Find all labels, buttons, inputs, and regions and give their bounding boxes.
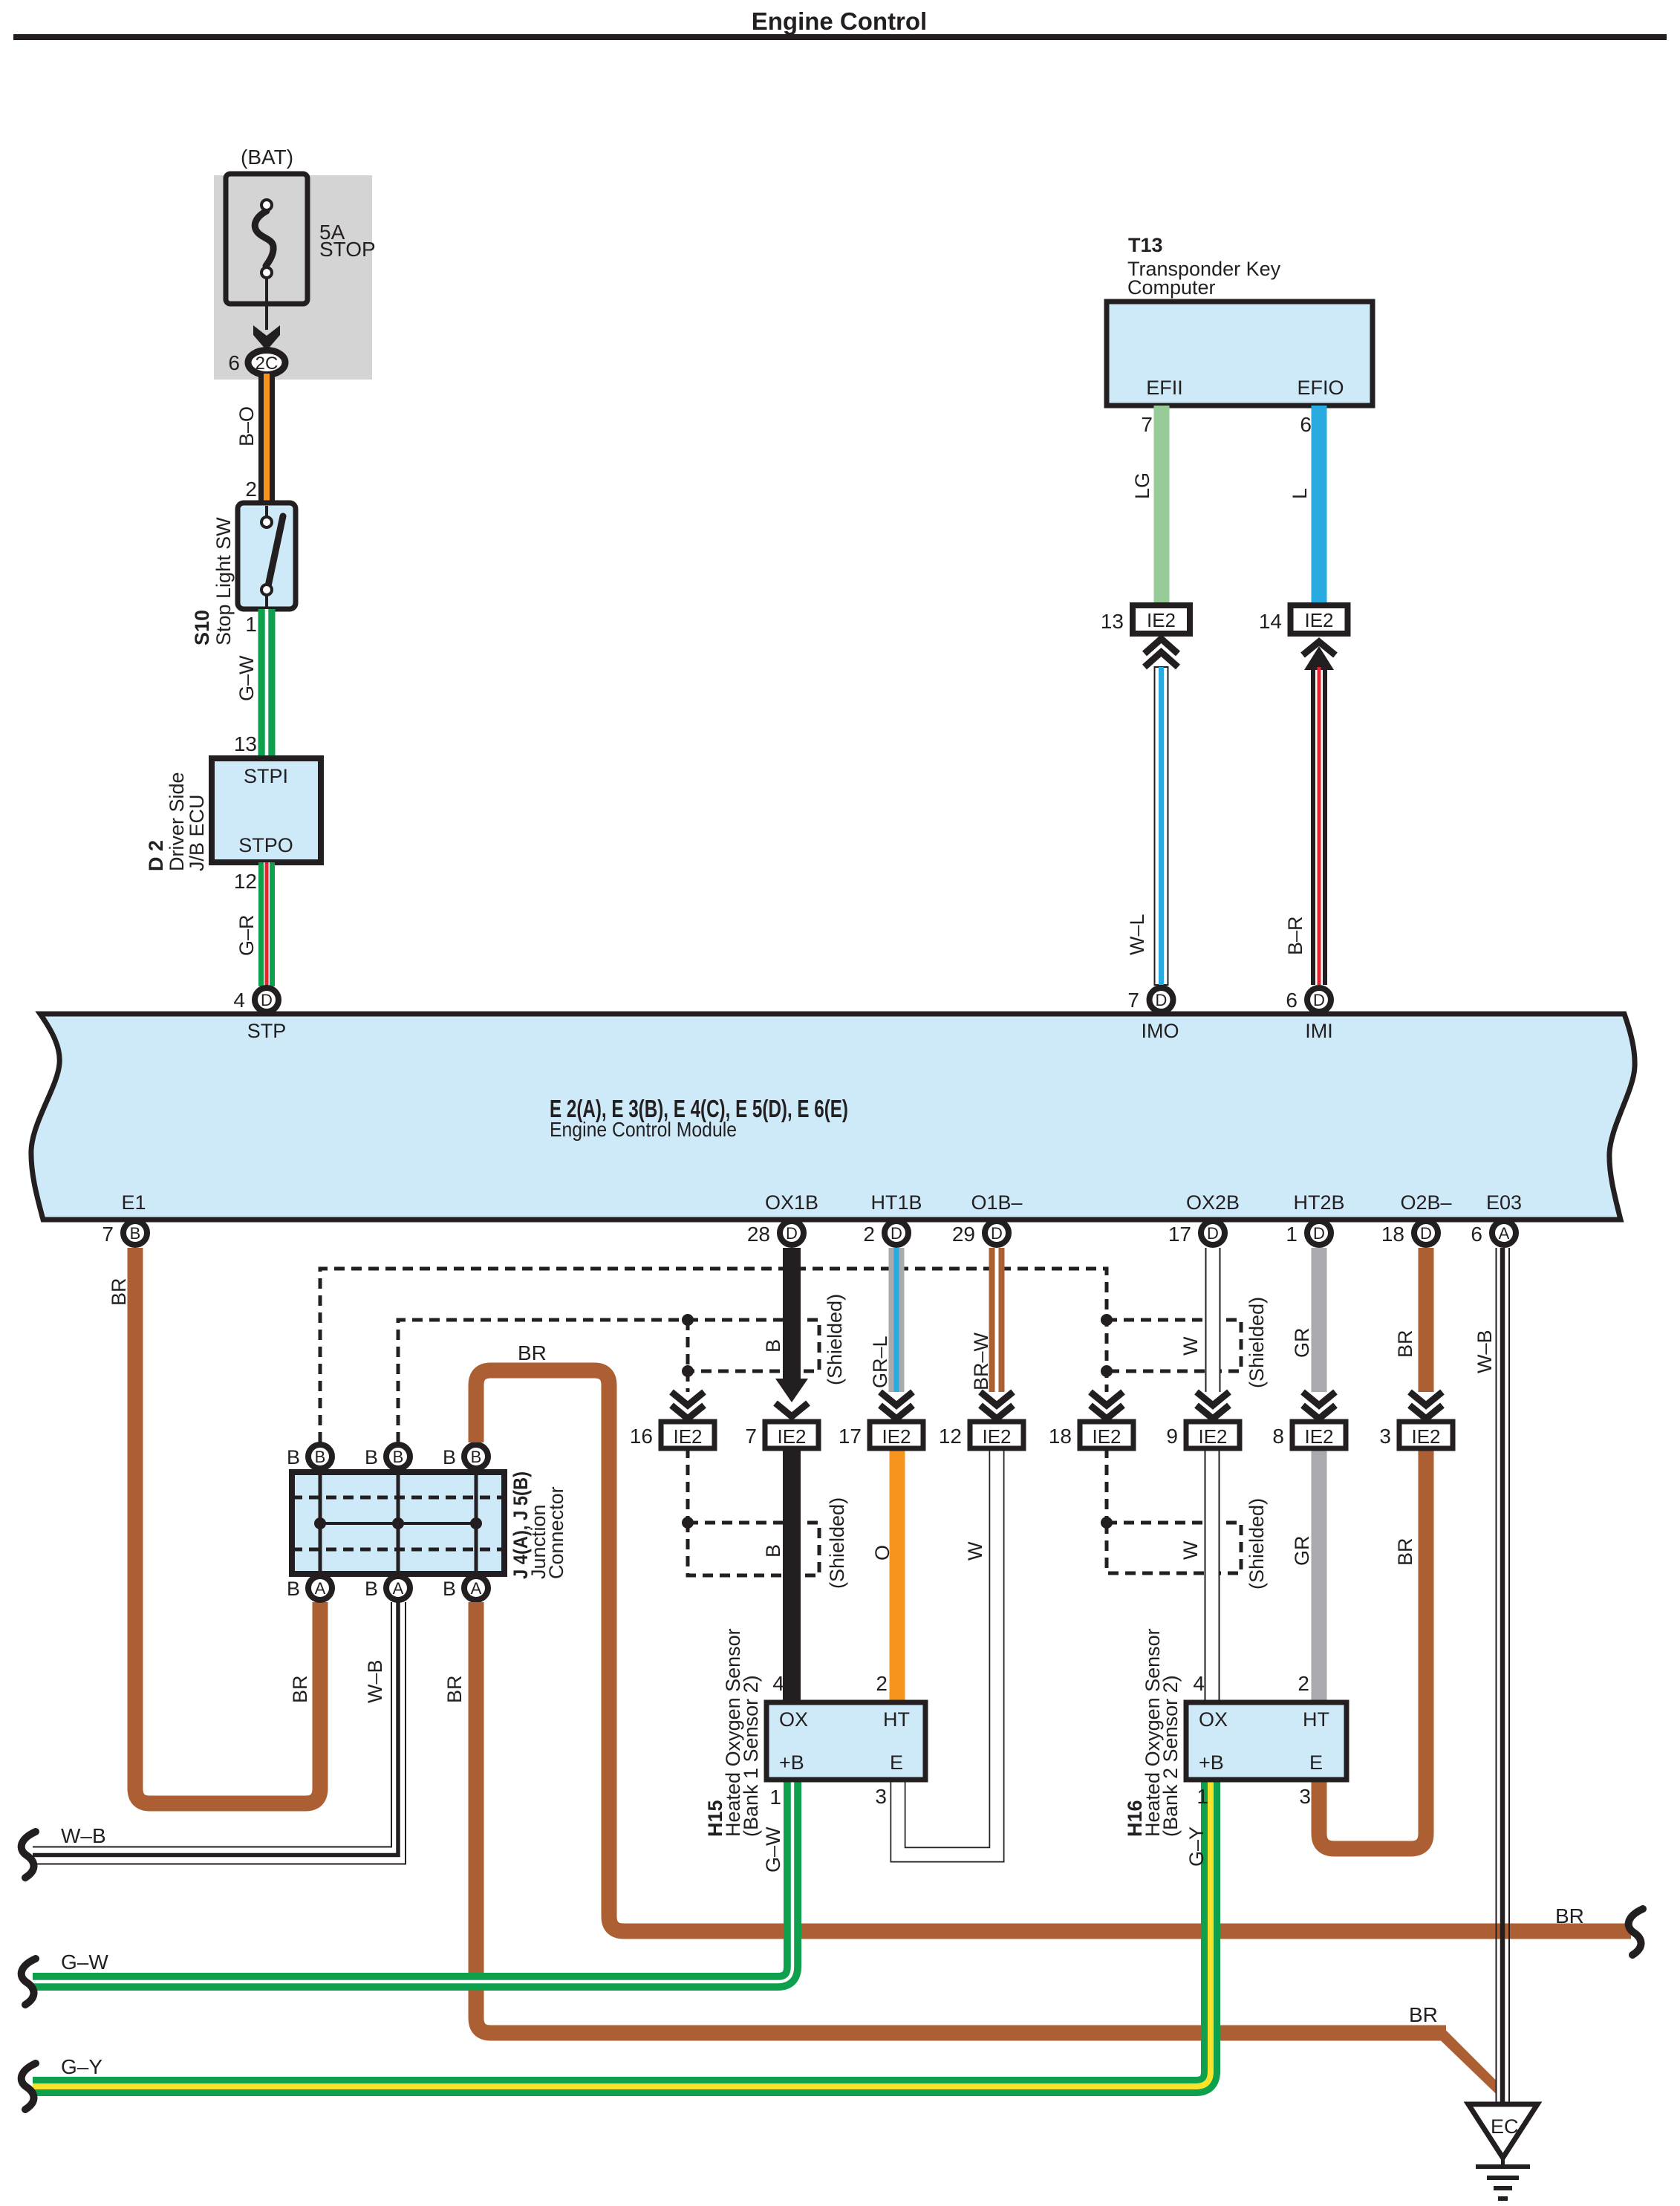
svg-text:D: D — [1207, 1224, 1219, 1243]
connector 3 IE2 — [1379, 1422, 1453, 1448]
svg-text:W–B: W–B — [1474, 1330, 1496, 1373]
connector 14 IE2 — [1259, 605, 1348, 670]
arrow into 2C — [253, 325, 280, 351]
svg-text:IE2: IE2 — [1092, 1425, 1121, 1448]
svg-text:B: B — [287, 1578, 300, 1600]
svg-text:4: 4 — [772, 1672, 784, 1695]
wire fuse to connector 2C — [265, 278, 268, 330]
svg-text:3: 3 — [1379, 1425, 1391, 1448]
wire G-Y (cut stub right to H16 +B) — [33, 1780, 1211, 2086]
svg-text:W: W — [1179, 1336, 1202, 1356]
svg-text:7: 7 — [1127, 989, 1139, 1012]
svg-text:W: W — [1179, 1540, 1202, 1560]
connector 16 IE2 — [630, 1422, 714, 1448]
cut squiggle right (BR) — [1629, 1909, 1643, 1955]
svg-text:Stop Light SW: Stop Light SW — [212, 517, 235, 645]
svg-text:D: D — [991, 1224, 1003, 1243]
svg-text:O2B–: O2B– — [1400, 1191, 1451, 1214]
svg-text:IE2: IE2 — [1147, 609, 1176, 631]
pin 7 B (E1) — [102, 1221, 147, 1246]
svg-text:13: 13 — [1101, 610, 1124, 633]
svg-text:B: B — [762, 1339, 784, 1353]
svg-text:HT2B: HT2B — [1293, 1191, 1344, 1214]
svg-text:G–R: G–R — [235, 914, 258, 956]
svg-text:2: 2 — [876, 1672, 888, 1695]
svg-text:E03: E03 — [1486, 1191, 1522, 1214]
connector 9 IE2 — [1166, 1422, 1240, 1448]
svg-text:IE2: IE2 — [982, 1425, 1011, 1448]
svg-text:D: D — [891, 1224, 902, 1243]
svg-text:18: 18 — [1049, 1425, 1072, 1448]
svg-text:2: 2 — [1298, 1672, 1309, 1695]
pin 4 D (STP) — [233, 988, 279, 1012]
title Engine Control — [752, 7, 927, 35]
svg-text:BR: BR — [1555, 1904, 1584, 1927]
svg-text:2: 2 — [245, 478, 257, 501]
wire W (OX2B, shielded) — [1179, 1248, 1213, 1702]
svg-text:3: 3 — [875, 1785, 887, 1808]
wire O (17 IE2 to H15 HT) — [871, 1448, 905, 1702]
svg-text:6: 6 — [1471, 1223, 1482, 1246]
wire B (OX1B, shielded) — [762, 1248, 808, 1702]
svg-text:IE2: IE2 — [882, 1425, 911, 1448]
connector 8 IE2 — [1272, 1422, 1346, 1448]
svg-text:1: 1 — [769, 1786, 781, 1809]
wire W-B (E03 to EC ground) — [1474, 1248, 1509, 2104]
svg-text:HT1B: HT1B — [870, 1191, 922, 1214]
pin 2 D (HT1B) — [863, 1221, 908, 1246]
junction pin B (top 3) — [443, 1445, 488, 1468]
switch S10 Stop Light SW — [191, 503, 296, 645]
wire L (EFIO to 14 IE2) — [1289, 406, 1327, 607]
chevron arrow into 16 IE2 — [671, 1392, 704, 1419]
wire GR (HT2B to 8 IE2 to H16 HT) — [1291, 1248, 1327, 1702]
svg-text:Connector: Connector — [545, 1486, 567, 1579]
shield dashed box lower (OX2B W) — [1107, 1523, 1241, 1573]
svg-text:B: B — [443, 1446, 456, 1468]
svg-text:(Bank 1 Sensor 2): (Bank 1 Sensor 2) — [740, 1675, 762, 1837]
connector 18 IE2 — [1049, 1422, 1133, 1448]
svg-text:S10: S10 — [191, 610, 213, 645]
gray background box (fuse block) — [214, 175, 372, 380]
svg-text:7: 7 — [102, 1223, 114, 1246]
svg-text:(BAT): (BAT) — [241, 146, 293, 169]
svg-text:B: B — [393, 1448, 404, 1466]
svg-text:J/B ECU: J/B ECU — [186, 794, 208, 871]
chevron arrow into 3 IE2 — [1410, 1392, 1442, 1419]
chevron arrow into 12 IE2 — [980, 1392, 1013, 1419]
svg-text:14: 14 — [1259, 610, 1282, 633]
fuse F 5A STOP — [226, 174, 376, 304]
svg-text:29: 29 — [952, 1223, 975, 1246]
svg-text:Driver Side: Driver Side — [166, 772, 188, 871]
svg-text:D: D — [261, 991, 273, 1009]
svg-text:A: A — [315, 1579, 326, 1598]
svg-text:B–R: B–R — [1284, 916, 1306, 955]
cut squiggle left (G-W) — [22, 1959, 36, 2005]
svg-text:IE2: IE2 — [673, 1425, 702, 1448]
wire W (12 IE2 down, left, up to H15 E) — [898, 1448, 997, 1855]
svg-text:O: O — [871, 1545, 893, 1561]
wire B-O — [235, 374, 275, 503]
svg-text:17: 17 — [1168, 1223, 1191, 1246]
svg-text:D: D — [1420, 1224, 1432, 1243]
cut squiggle left (W-B) — [22, 1832, 36, 1878]
svg-text:IE2: IE2 — [1304, 609, 1333, 631]
svg-text:D: D — [1156, 991, 1168, 1009]
svg-text:OX2B: OX2B — [1186, 1191, 1240, 1214]
svg-text:Engine Control Module: Engine Control Module — [550, 1118, 737, 1141]
wire B-R (14 IE2 to IMI) — [1284, 667, 1327, 985]
svg-text:17: 17 — [839, 1425, 862, 1448]
wire LG (EFII to 13 IE2) — [1131, 406, 1170, 607]
svg-text:A: A — [471, 1579, 482, 1598]
shield drain dashed line to junction B1 and 18 IE2 — [320, 1269, 1107, 1523]
svg-text:(Shielded): (Shielded) — [1246, 1297, 1268, 1388]
svg-text:BR: BR — [1409, 2003, 1438, 2026]
cut squiggle left (G-Y) — [22, 2063, 36, 2109]
svg-text:B: B — [365, 1578, 378, 1600]
chevron arrow into 17 IE2 — [880, 1392, 913, 1419]
connector 17 IE2 — [839, 1422, 923, 1448]
svg-text:G–Y: G–Y — [1185, 1826, 1208, 1867]
svg-text:+B: +B — [1199, 1751, 1224, 1774]
svg-text:T13: T13 — [1128, 234, 1163, 256]
svg-text:G–W: G–W — [61, 1950, 108, 1974]
svg-text:+B: +B — [779, 1751, 804, 1774]
svg-text:A: A — [1499, 1224, 1510, 1243]
junction connector box — [292, 1471, 567, 1579]
svg-text:B: B — [471, 1448, 482, 1466]
J/B ECU D2 — [145, 758, 321, 871]
svg-text:3: 3 — [1299, 1785, 1311, 1808]
shield drain dashed line to junction B2 and 16 IE2 — [398, 1320, 688, 1523]
svg-text:HT: HT — [883, 1708, 910, 1731]
svg-text:BR: BR — [289, 1675, 311, 1703]
svg-text:2C: 2C — [255, 354, 279, 374]
svg-text:(Shielded): (Shielded) — [824, 1294, 846, 1385]
svg-text:BR: BR — [518, 1341, 547, 1364]
wire BR loop (junction B3 up over to right, down, then right to cut) — [476, 1341, 1631, 1931]
svg-text:OX1B: OX1B — [765, 1191, 818, 1214]
svg-text:W–B: W–B — [364, 1659, 386, 1703]
svg-text:GR–L: GR–L — [869, 1335, 891, 1388]
svg-text:OX: OX — [1199, 1708, 1228, 1731]
shield dashed box lower (OX1B B) — [688, 1523, 819, 1575]
svg-text:W–L: W–L — [1126, 914, 1148, 955]
svg-text:STPI: STPI — [244, 765, 288, 787]
svg-text:G–Y: G–Y — [61, 2055, 102, 2078]
svg-text:D: D — [786, 1224, 798, 1243]
connector 13 IE2 — [1101, 605, 1190, 667]
junction pin A (bottom 3) — [443, 1576, 488, 1600]
svg-text:W–B: W–B — [61, 1824, 106, 1847]
pin 1 D (HT2B) — [1286, 1221, 1331, 1246]
svg-text:GR: GR — [1291, 1328, 1313, 1359]
svg-text:STPO: STPO — [238, 834, 293, 856]
svg-text:W: W — [964, 1541, 986, 1561]
svg-text:GR: GR — [1291, 1536, 1313, 1566]
wire W-B (junction A2 down, left to cut) — [33, 1602, 406, 1864]
svg-text:6: 6 — [1286, 989, 1298, 1012]
svg-text:OX: OX — [779, 1708, 808, 1731]
svg-text:IMI: IMI — [1305, 1020, 1333, 1042]
svg-text:(Shielded): (Shielded) — [826, 1497, 848, 1589]
svg-text:12: 12 — [234, 870, 257, 893]
svg-text:B: B — [762, 1544, 784, 1558]
svg-text:EFIO: EFIO — [1297, 377, 1344, 399]
connector 7 IE2 — [745, 1422, 818, 1448]
wire GR-L (HT1B to 17 IE2) — [869, 1248, 905, 1392]
svg-text:Engine Control: Engine Control — [752, 7, 927, 35]
junction pin A (bottom 2) — [365, 1576, 410, 1600]
svg-text:G–W: G–W — [762, 1826, 784, 1873]
wire G-W (cut stub right to H15 +B) — [33, 1780, 792, 1982]
connector 2C pin 6 — [228, 351, 285, 375]
svg-text:EC: EC — [1491, 2115, 1519, 2138]
svg-text:BR: BR — [108, 1278, 130, 1306]
svg-text:7: 7 — [1141, 413, 1153, 436]
connector 12 IE2 — [939, 1422, 1023, 1448]
svg-text:13: 13 — [234, 732, 257, 755]
svg-text:E: E — [1309, 1751, 1323, 1774]
pin 18 D (O2B-) — [1381, 1221, 1438, 1246]
svg-text:Computer: Computer — [1127, 276, 1216, 299]
svg-text:B–O: B–O — [235, 406, 258, 446]
pin 6 A (E03) — [1471, 1221, 1516, 1246]
header rule — [13, 34, 1667, 40]
svg-text:9: 9 — [1166, 1425, 1178, 1448]
svg-text:EFII: EFII — [1146, 377, 1183, 399]
svg-text:7: 7 — [745, 1425, 757, 1448]
svg-text:STP: STP — [247, 1020, 287, 1042]
svg-text:IE2: IE2 — [777, 1425, 806, 1448]
svg-text:1: 1 — [1286, 1223, 1298, 1246]
svg-text:D: D — [1313, 1224, 1325, 1243]
chevron arrow into 8 IE2 — [1303, 1392, 1335, 1419]
svg-text:G–W: G–W — [235, 655, 258, 701]
wire G-W (S10 to D2) — [234, 609, 276, 758]
svg-text:LG: LG — [1131, 472, 1153, 499]
shield junction dots — [682, 1314, 1113, 1529]
svg-text:2: 2 — [863, 1223, 875, 1246]
svg-text:E: E — [890, 1751, 903, 1774]
pin 29 D (O1B-) — [952, 1221, 1009, 1246]
svg-text:BR: BR — [443, 1675, 466, 1703]
svg-text:(Shielded): (Shielded) — [1246, 1498, 1268, 1590]
svg-text:D 2: D 2 — [145, 840, 167, 871]
pin 7 D (IMO) — [1127, 988, 1173, 1012]
chevron arrow into 18 IE2 — [1090, 1392, 1123, 1419]
svg-text:4: 4 — [1193, 1672, 1205, 1695]
svg-text:BR: BR — [1394, 1330, 1416, 1358]
wire BR from E1 to junction A1 — [108, 1248, 320, 1803]
pin 28 D (OX1B) — [747, 1221, 804, 1246]
svg-text:B: B — [287, 1446, 300, 1468]
svg-text:16: 16 — [630, 1425, 653, 1448]
svg-text:IE2: IE2 — [1304, 1425, 1333, 1448]
pin 17 D (OX2B) — [1168, 1221, 1225, 1246]
junction pin B (top 2) — [365, 1445, 410, 1468]
svg-text:6: 6 — [1300, 413, 1312, 436]
svg-text:4: 4 — [233, 989, 245, 1012]
svg-text:B: B — [130, 1224, 141, 1243]
chevron arrow into 9 IE2 — [1196, 1392, 1229, 1419]
svg-text:A: A — [393, 1579, 404, 1598]
svg-text:IMO: IMO — [1142, 1020, 1179, 1042]
svg-text:18: 18 — [1381, 1223, 1404, 1246]
svg-text:BR–W: BR–W — [970, 1332, 992, 1390]
svg-text:1: 1 — [1196, 1785, 1208, 1808]
svg-text:12: 12 — [939, 1425, 962, 1448]
svg-text:6: 6 — [228, 351, 240, 374]
shield dashed box upper (OX2B W) — [1107, 1320, 1241, 1371]
svg-text:B: B — [443, 1578, 456, 1600]
svg-text:E1: E1 — [121, 1191, 146, 1214]
svg-text:(Bank 2 Sensor 2): (Bank 2 Sensor 2) — [1159, 1675, 1182, 1837]
svg-text:O1B–: O1B– — [971, 1191, 1022, 1214]
wire W-L (13 IE2 to IMO) — [1126, 667, 1168, 985]
svg-text:IE2: IE2 — [1198, 1425, 1227, 1448]
svg-text:BR: BR — [1394, 1538, 1416, 1566]
svg-text:1: 1 — [245, 613, 257, 636]
svg-text:L: L — [1289, 488, 1311, 499]
wire BR (O2B- to 3 IE2 then to H16 E) — [1319, 1248, 1434, 1849]
svg-text:8: 8 — [1272, 1425, 1284, 1448]
ground EC — [1468, 2104, 1537, 2199]
junction pin A (bottom 1) — [287, 1576, 332, 1600]
junction pin B (top 1) — [287, 1445, 332, 1468]
wire BR (junction A3 down, right, diagonal to ground line) — [443, 1602, 1496, 2094]
shield dashed box upper (OX1B B) — [688, 1320, 819, 1371]
svg-text:28: 28 — [747, 1223, 770, 1246]
pin 6 D (IMI) — [1286, 988, 1331, 1012]
svg-text:D: D — [1313, 991, 1325, 1009]
wire BR-W (O1B- to 12 IE2) — [970, 1248, 1005, 1392]
svg-text:STOP: STOP — [319, 238, 376, 261]
svg-text:IE2: IE2 — [1411, 1425, 1440, 1448]
wire G-R (D2 to ECM STP) — [234, 862, 275, 986]
svg-text:B: B — [315, 1448, 326, 1466]
svg-text:HT: HT — [1303, 1708, 1329, 1731]
svg-text:B: B — [365, 1446, 378, 1468]
